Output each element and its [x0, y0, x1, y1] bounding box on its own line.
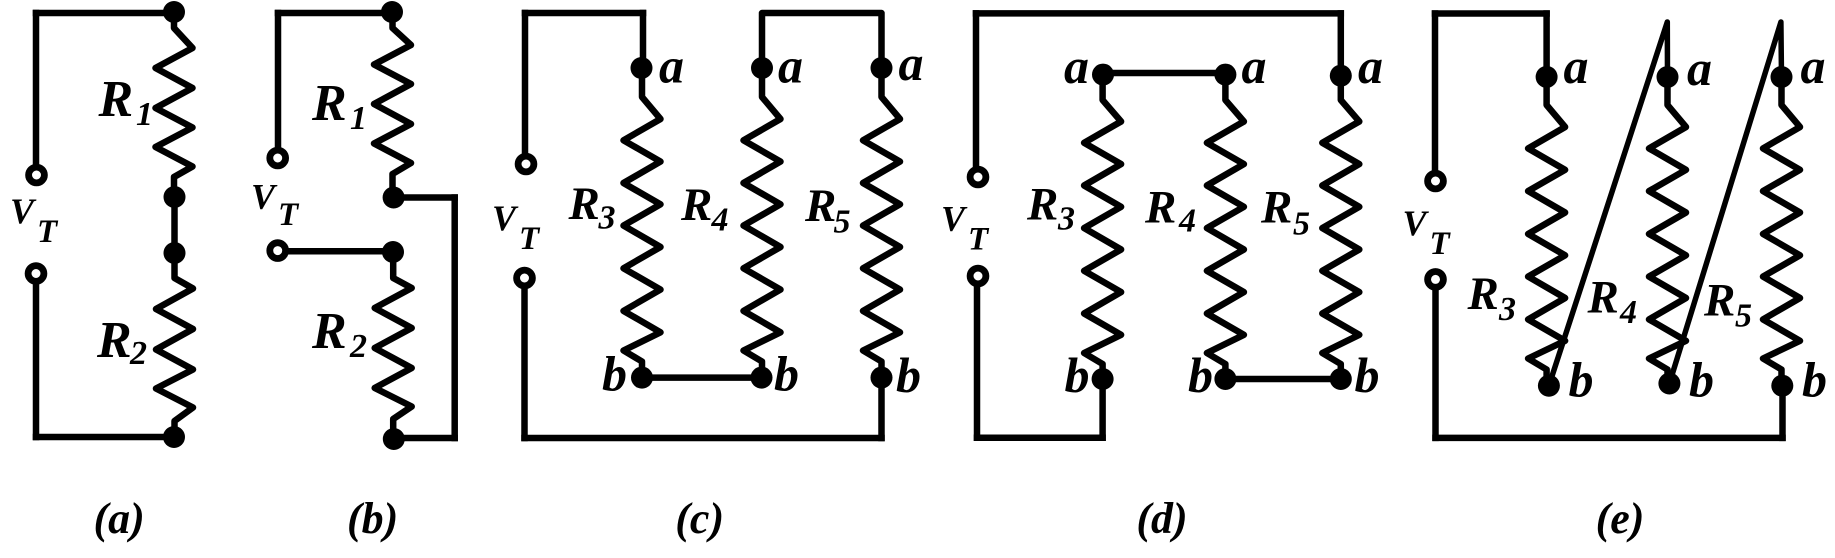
wire left upper (b)	[275, 13, 282, 148]
wire right vertical (b)	[451, 198, 458, 439]
resistor R1 (a)	[156, 12, 193, 197]
svg-text:R: R	[680, 179, 712, 231]
svg-text:1: 1	[350, 100, 367, 137]
wire diagonal b3 to a4 (e)	[1549, 22, 1668, 386]
svg-text:4: 4	[711, 202, 729, 239]
svg-text:5: 5	[1735, 298, 1752, 335]
wire bottom (c)	[525, 435, 882, 442]
svg-text:V: V	[10, 191, 37, 231]
terminal + VT (d)	[970, 169, 986, 185]
svg-text:R: R	[1026, 179, 1058, 231]
svg-text:5: 5	[1293, 206, 1310, 243]
node b dot R3 (d)	[1092, 368, 1114, 390]
svg-text:R: R	[1467, 268, 1499, 320]
svg-text:2: 2	[129, 335, 147, 372]
svg-text:(c): (c)	[675, 494, 724, 543]
svg-text:V: V	[1403, 203, 1430, 243]
wire terminal to R2 (b)	[289, 248, 394, 255]
wire bottom (b)	[394, 435, 455, 442]
resistor R4 (e)	[1649, 77, 1686, 384]
resistor R1 (b)	[374, 12, 411, 198]
svg-text:a: a	[778, 38, 803, 94]
wire left upper (a)	[33, 13, 40, 165]
node b dot R5 (d)	[1330, 368, 1352, 390]
wire top (d)	[976, 10, 1341, 17]
svg-text:T: T	[968, 222, 990, 258]
terminal + VT (b)	[270, 150, 286, 166]
svg-text:b: b	[896, 347, 921, 403]
terminal - VT (c)	[517, 270, 533, 286]
node b dot R4 (c)	[751, 367, 773, 389]
wire top R4-R5 (c)	[762, 13, 882, 68]
svg-text:T: T	[37, 214, 59, 250]
node a dot R4 (d)	[1214, 64, 1236, 86]
svg-text:b: b	[1569, 352, 1594, 408]
svg-text:b: b	[602, 346, 627, 402]
svg-text:3: 3	[598, 200, 616, 237]
svg-text:T: T	[278, 197, 300, 233]
wire between R1 and R2 (a)	[171, 197, 178, 253]
node a dot R3 (d)	[1092, 64, 1114, 86]
svg-text:R: R	[311, 303, 347, 360]
wire bottom (e)	[1436, 435, 1783, 442]
junction dot R1 bottom (a)	[164, 186, 186, 208]
wire R3 bottom lead (d)	[1099, 379, 1106, 438]
terminal - VT (e)	[1428, 272, 1444, 288]
resistor R4 (d)	[1207, 75, 1244, 379]
svg-text:(e): (e)	[1596, 494, 1645, 543]
wire left lower (c)	[521, 289, 528, 439]
svg-text:R: R	[804, 180, 836, 232]
resistor R4 (c)	[744, 68, 781, 378]
wire top (a)	[36, 10, 174, 17]
resistor R5 (c)	[863, 68, 900, 378]
wire left lower (e)	[1432, 290, 1439, 438]
node b dot R5 (e)	[1771, 375, 1793, 397]
svg-text:V: V	[492, 198, 519, 238]
svg-text:R: R	[1260, 182, 1292, 234]
svg-text:T: T	[1430, 226, 1452, 262]
resistor R2 (b)	[375, 252, 412, 439]
svg-text:1: 1	[136, 96, 153, 133]
svg-text:(b): (b)	[347, 494, 398, 543]
svg-text:3: 3	[1057, 201, 1075, 238]
svg-text:T: T	[519, 221, 541, 257]
resistor R5 (e)	[1763, 77, 1800, 386]
wire left upper (e)	[1432, 14, 1439, 171]
wire R5 bottom lead (e)	[1779, 386, 1786, 438]
wire bottom (a)	[36, 434, 174, 441]
junction dot R2 top (a)	[164, 242, 186, 264]
wire bottom (d)	[977, 435, 1103, 442]
svg-text:a: a	[1358, 38, 1383, 94]
svg-text:a: a	[1064, 38, 1089, 94]
junction dot R2 bottom (b)	[383, 428, 405, 450]
svg-text:V: V	[251, 177, 278, 217]
wire top (e)	[1435, 10, 1547, 17]
wire b4 to b5 (d)	[1225, 376, 1340, 383]
svg-text:R: R	[311, 75, 347, 132]
junction dot R2 top (b)	[382, 241, 404, 263]
svg-text:R: R	[96, 312, 132, 369]
svg-text:a: a	[1801, 38, 1826, 94]
resistor R5 (d)	[1322, 76, 1359, 379]
junction dot bottom (a)	[163, 426, 185, 448]
wire R5 top lead (d)	[1338, 13, 1345, 75]
svg-text:5: 5	[834, 204, 851, 241]
svg-text:R: R	[1587, 272, 1619, 324]
wire R1 bottom to right (b)	[394, 194, 455, 201]
svg-text:a: a	[659, 38, 684, 94]
node a dot R5 (c)	[871, 57, 893, 79]
svg-text:b: b	[1689, 352, 1714, 408]
resistor R3 (e)	[1528, 77, 1565, 386]
wire top (b)	[278, 10, 392, 17]
svg-text:b: b	[774, 346, 799, 402]
node a dot R3 (c)	[631, 57, 653, 79]
resistor R2 (a)	[156, 253, 193, 437]
wire R3 top lead (e)	[1543, 14, 1550, 77]
node b dot R4 (d)	[1214, 368, 1236, 390]
node b dot R3 (c)	[631, 367, 653, 389]
terminal + VT (c)	[518, 156, 534, 172]
svg-text:3: 3	[1498, 291, 1516, 328]
svg-text:4: 4	[1619, 294, 1637, 331]
terminal - VT (a)	[28, 266, 44, 282]
wire left lower (d)	[974, 287, 981, 438]
wire b3 to b4 (c)	[642, 374, 762, 381]
terminal + VT (a)	[29, 167, 45, 183]
svg-text:b: b	[1802, 352, 1827, 408]
svg-text:a: a	[1687, 40, 1712, 96]
resistor R3 (c)	[624, 68, 661, 378]
node a dot R5 (e)	[1771, 66, 1793, 88]
svg-text:R: R	[98, 71, 134, 128]
svg-text:(d): (d)	[1136, 494, 1187, 543]
node a dot R3 (e)	[1536, 66, 1558, 88]
wire R3 top lead (c)	[640, 13, 647, 68]
wire left upper (c)	[522, 13, 529, 154]
svg-text:V: V	[941, 199, 968, 239]
svg-text:b: b	[1355, 347, 1380, 403]
node b dot R4 (e)	[1658, 373, 1680, 395]
wire diagonal b4 to a5 (e)	[1669, 22, 1781, 384]
wire R5 bottom lead (c)	[878, 378, 885, 438]
svg-text:(a): (a)	[94, 494, 145, 543]
svg-text:a: a	[899, 35, 924, 91]
wire left upper (d)	[973, 13, 980, 166]
svg-text:R: R	[568, 178, 600, 230]
junction dot R1 bottom (b)	[383, 187, 405, 209]
svg-text:R: R	[1703, 275, 1735, 327]
wire top left segment (c)	[525, 10, 643, 17]
node b dot R3 (e)	[1538, 375, 1560, 397]
terminal - VT (b)	[270, 243, 286, 259]
svg-text:R: R	[1144, 182, 1176, 234]
svg-text:b: b	[1188, 347, 1213, 403]
svg-text:a: a	[1242, 38, 1267, 94]
junction dot top (b)	[381, 1, 403, 23]
node a dot R4 (e)	[1657, 66, 1679, 88]
wire left lower (a)	[33, 284, 40, 437]
terminal + VT (e)	[1428, 173, 1444, 189]
node a dot R5 (d)	[1330, 65, 1352, 87]
node a dot R4 (c)	[751, 57, 773, 79]
svg-text:4: 4	[1178, 203, 1196, 240]
terminal - VT (d)	[970, 268, 986, 284]
svg-text:a: a	[1564, 38, 1589, 94]
svg-text:2: 2	[349, 328, 367, 365]
junction dot top (a)	[163, 1, 185, 23]
node b dot R5 (c)	[871, 367, 893, 389]
svg-text:b: b	[1065, 347, 1090, 403]
wire a3 to a4 (d)	[1103, 70, 1225, 77]
resistor R3 (d)	[1084, 75, 1121, 379]
